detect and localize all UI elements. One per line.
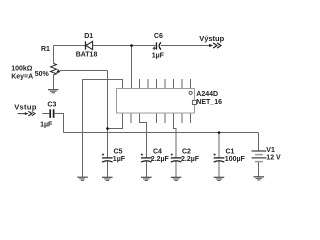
svg-text:NET_16: NET_16 <box>196 99 222 106</box>
ground C4 <box>141 177 152 180</box>
svg-text:Výstup: Výstup <box>199 34 224 43</box>
ground C5 <box>102 177 113 180</box>
svg-text:R1: R1 <box>41 46 50 53</box>
wire top rail left segment <box>54 45 86 47</box>
wire pin B9 stub <box>190 113 192 123</box>
capacitor C5 <box>102 149 126 163</box>
output port Vystup <box>199 34 224 48</box>
wire pin T3 stub <box>139 79 141 89</box>
battery V1 <box>252 147 281 162</box>
svg-text:A244D: A244D <box>196 91 218 98</box>
diode D1 BAT18 <box>76 33 98 59</box>
wire pot top to rail <box>53 46 55 64</box>
input port Vstup <box>14 103 37 116</box>
svg-text:C4: C4 <box>153 149 162 156</box>
wire pin B5 stub <box>156 113 158 123</box>
svg-text:1µF: 1µF <box>152 53 165 60</box>
svg-text:D1: D1 <box>84 33 93 40</box>
capacitor C1 <box>214 149 246 163</box>
svg-text:C2: C2 <box>182 149 191 156</box>
svg-text:2.2µF: 2.2µF <box>151 156 170 163</box>
svg-text:C3: C3 <box>47 102 56 109</box>
wire battery bottom to ground <box>258 162 260 177</box>
svg-text:12 V: 12 V <box>266 155 281 162</box>
wire rail to battery top <box>258 133 260 151</box>
svg-text:C5: C5 <box>114 149 123 156</box>
svg-text:1µF: 1µF <box>40 121 53 128</box>
svg-text:BAT18: BAT18 <box>76 52 98 59</box>
wire pin T4 stub <box>147 79 149 89</box>
wire pin B2 stub <box>130 113 132 123</box>
wire C2 bottom to ground <box>175 161 177 177</box>
svg-text:Key=A: Key=A <box>11 73 33 80</box>
wire pin T1 left and down to ground <box>83 80 123 177</box>
wire pin B1 to node <box>108 113 123 129</box>
wire input to C3 <box>42 113 49 115</box>
wire pin T5 stub <box>156 79 158 89</box>
wire pin T2 up to rail <box>131 46 133 89</box>
svg-text:50%: 50% <box>35 71 50 78</box>
node junction top rail <box>130 44 133 47</box>
wire rail down to C1 <box>218 133 220 158</box>
svg-text:1µF: 1µF <box>113 156 126 163</box>
wire top rail middle segment <box>93 45 156 47</box>
wire C5 bottom to ground <box>107 161 109 177</box>
svg-text:C6: C6 <box>154 33 163 40</box>
wire top rail right segment to output <box>161 45 210 47</box>
wire wiper vertical down to C5 <box>107 71 109 158</box>
wire bottom rail <box>64 132 259 134</box>
wire wiper horizontal <box>60 70 108 72</box>
ground battery V1 <box>254 177 265 180</box>
capacitor C6 <box>152 33 165 60</box>
svg-text:Vstup: Vstup <box>14 103 37 112</box>
wire pin B7 jog down to C2 <box>174 113 177 158</box>
wire pin T9 stub <box>190 79 192 89</box>
ground C2 <box>171 177 182 180</box>
potentiometer R1 <box>11 46 60 80</box>
ground pot R1 <box>48 90 59 93</box>
wire C4 bottom to ground <box>146 161 148 177</box>
svg-text:100kΩ: 100kΩ <box>11 65 33 72</box>
wire C1 bottom to ground <box>218 161 220 177</box>
wire pin T6 stub <box>164 79 166 89</box>
wire pin T8 stub <box>181 79 183 89</box>
wire pin B8 stub <box>181 113 183 123</box>
capacitor C2 <box>171 149 200 163</box>
wire pin T7 stub <box>173 79 175 89</box>
ground left branch <box>77 177 88 180</box>
wire pot bottom to ground <box>53 75 55 89</box>
wire pin B3 jog down to C4 <box>140 113 147 158</box>
svg-text:2.2µF: 2.2µF <box>181 156 200 163</box>
capacitor C4 <box>141 149 170 163</box>
capacitor C3 <box>40 102 56 129</box>
svg-text:100µF: 100µF <box>225 156 246 163</box>
node junction wiper C3 B1 <box>106 127 109 130</box>
ground C1 <box>214 177 225 180</box>
node junction rail C1 <box>218 131 221 134</box>
svg-text:V1: V1 <box>266 147 275 154</box>
op-amp U1 A244D IC body <box>117 89 223 114</box>
svg-text:C1: C1 <box>226 149 235 156</box>
wire pin B6 stub <box>164 113 166 123</box>
wire C3 to bottom rail <box>54 114 63 133</box>
